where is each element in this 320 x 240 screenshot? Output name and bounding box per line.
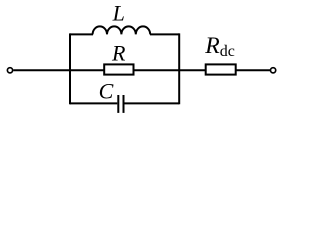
svg-text:R: R — [111, 41, 126, 66]
wire: Rdc to right terminal — [236, 69, 270, 71]
wire: top branch left — [70, 33, 93, 35]
node A: left junction vertical bus — [69, 33, 71, 104]
left terminal — [7, 68, 12, 73]
resistor R — [104, 64, 133, 74]
svg-text:C: C — [99, 79, 114, 104]
wire: bottom branch left — [70, 102, 117, 104]
wire: top branch right — [150, 33, 179, 35]
right terminal — [270, 68, 275, 73]
resistor Rdc — [206, 64, 236, 74]
capacitor C — [118, 95, 123, 113]
svg-text:Rdc: Rdc — [204, 33, 235, 60]
node B: right junction vertical bus — [178, 33, 180, 104]
wire: bottom branch right — [125, 102, 180, 104]
inductor L — [93, 26, 151, 34]
svg-text:L: L — [112, 0, 125, 25]
wire: middle branch right — [134, 69, 180, 71]
wire: middle branch left — [70, 69, 104, 71]
wire: node B to Rdc — [179, 69, 206, 71]
wire: left terminal to node A — [13, 69, 70, 71]
